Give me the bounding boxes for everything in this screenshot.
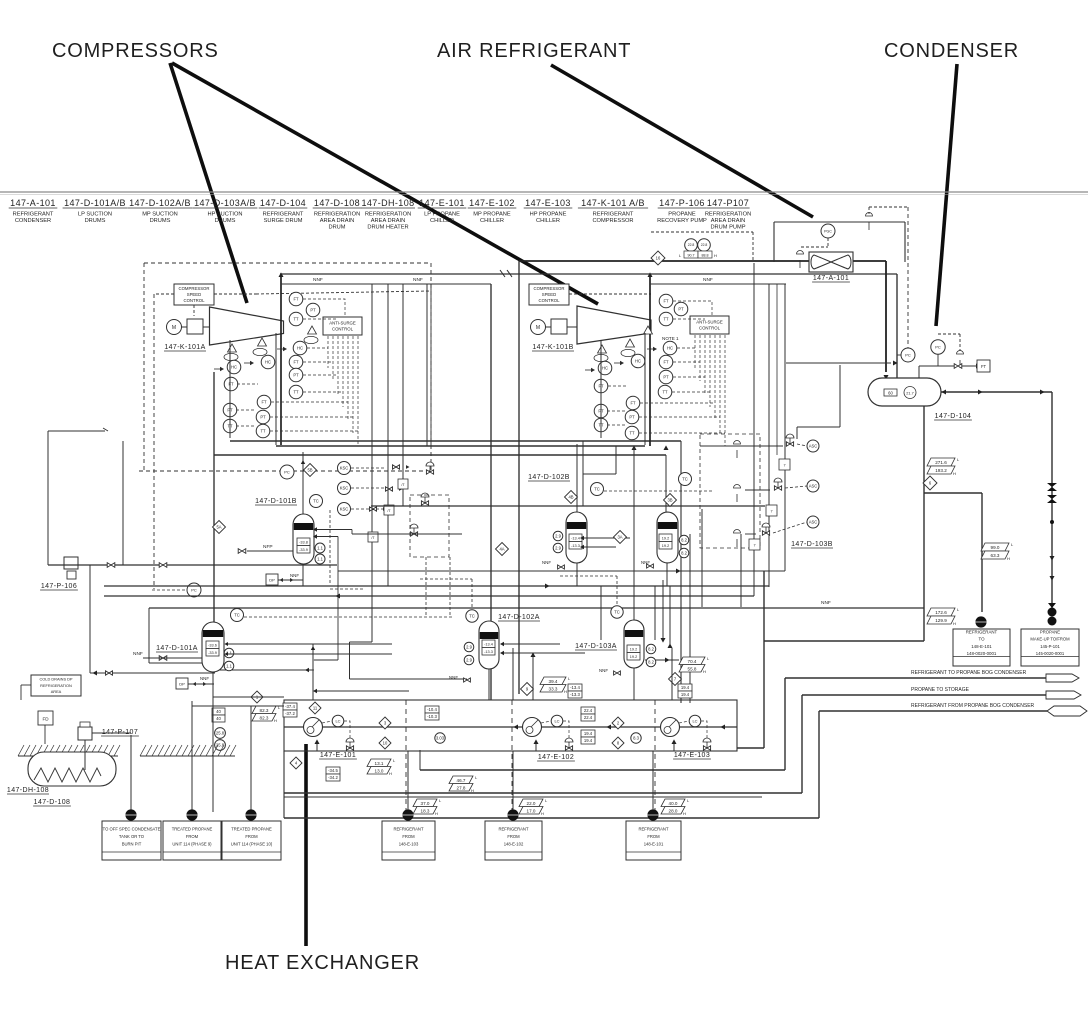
svg-text:DRUM: DRUM (328, 225, 345, 231)
wire 147-E-103 feed (673, 744, 675, 751)
arrow x634 up (631, 445, 636, 450)
dashed mid box (410, 495, 449, 557)
compressor 147-K-101A (210, 307, 284, 345)
wire v x616 (615, 446, 617, 474)
svg-text:MP PROPANE: MP PROPANE (473, 212, 511, 218)
arrow into drum (883, 375, 888, 380)
svg-text:-13.3: -13.3 (570, 692, 580, 697)
exchanger 147-E-103 (661, 718, 680, 737)
instrument FT B-r1 (659, 294, 673, 308)
offpage connector 2 (1046, 691, 1081, 699)
wire 102B in a (582, 537, 630, 539)
box A/T 3 (368, 532, 378, 542)
ball connector BURN PIT (125, 809, 136, 820)
wire y474 link (583, 473, 616, 475)
svg-text:TC: TC (234, 613, 240, 618)
dashed sep 1 (405, 700, 407, 812)
arrow discharge B (647, 272, 652, 277)
wire dashed PGC drop (827, 238, 829, 247)
dashed v426 (425, 557, 427, 617)
wire v x513a (512, 648, 514, 700)
box REFRIGERANT TO 148-E-101 (953, 629, 1010, 666)
box A/T 2 (384, 505, 394, 515)
equipment tag 147-E-103 (524, 198, 573, 224)
wire dashed psv h (869, 206, 908, 208)
instrument PT A-r1 (306, 303, 320, 317)
svg-text:TREATED PROPANE: TREATED PROPANE (172, 827, 213, 832)
arrow y571 (676, 568, 681, 573)
instrument TT B-r2 (658, 385, 672, 399)
pump 147-P-106 (64, 557, 78, 579)
wire stream3 drop (818, 711, 820, 818)
valve ksc2 (386, 487, 403, 491)
svg-text:PC: PC (284, 469, 290, 474)
box REFRIGERANT 148-E-103 (382, 821, 435, 860)
label 147-D-103A (575, 643, 617, 650)
relief valve PSV top (866, 213, 873, 231)
instrument 2.9 c (464, 642, 474, 652)
svg-text:TC: TC (614, 610, 620, 615)
svg-text:PC: PC (935, 344, 941, 349)
svg-text:NNF: NNF (290, 573, 299, 578)
svg-text:TT: TT (293, 317, 299, 322)
wire relief hdr x797 (796, 427, 798, 439)
svg-text:8.2: 8.2 (648, 660, 654, 665)
svg-text:LP SUCTION: LP SUCTION (78, 212, 112, 218)
instrument TC 101B (310, 495, 323, 508)
wire left v x90 (89, 565, 91, 673)
svg-text:ANTI-SURGE: ANTI-SURGE (696, 319, 723, 324)
svg-text:-33.8: -33.8 (299, 540, 308, 544)
svg-text:KSC: KSC (340, 466, 349, 471)
offpage connector 1 (1046, 674, 1079, 682)
wire p107 out (92, 732, 131, 734)
svg-text:REFRIGERANT TO PROPANE BOG: REFRIGERANT TO PROPANE BOG CONDENSER (911, 670, 1027, 676)
svg-text:22.8: 22.8 (701, 243, 708, 247)
svg-text:2.9: 2.9 (555, 546, 561, 551)
values 101A (206, 641, 219, 656)
instrument PT B-r1 (674, 302, 688, 316)
svg-text:REFRIGERANT: REFRIGERANT (593, 212, 634, 218)
svg-text:63.3: 63.3 (991, 553, 1000, 558)
wire nnf B (650, 283, 786, 285)
instrument PT B-l (594, 404, 608, 418)
svg-text:DRUMS: DRUMS (215, 218, 236, 224)
valve dp1 (192, 682, 206, 686)
cloud B3 (594, 354, 608, 361)
wire x338 jog (337, 537, 339, 661)
wire bot lateral y748 (737, 747, 764, 749)
wire dashed csc a (193, 305, 195, 316)
label 147-D-103B (791, 541, 833, 548)
dashed tc101b v (329, 510, 331, 583)
equipment tag 147-A-101 (9, 198, 58, 224)
label 147-P-106 (40, 583, 78, 590)
svg-text:SPEED: SPEED (187, 292, 202, 297)
tag 70.4/55.8 (679, 656, 710, 674)
instrument KSC 1 (338, 462, 351, 475)
svg-text:COMPRESSOR: COMPRESSOR (592, 218, 633, 224)
svg-text:REFRIGERANT: REFRIGERANT (393, 827, 423, 832)
svg-text:147-K-101B: 147-K-101B (532, 344, 573, 351)
tag 39.4/33.3 (540, 676, 571, 694)
vessel 147-D-108 (28, 752, 116, 786)
wire pc stem (918, 366, 920, 378)
svg-text:H: H (541, 811, 544, 816)
wire mid line y506 (371, 505, 765, 507)
wire left v x123 (122, 441, 124, 565)
valve ksc1 (393, 465, 410, 469)
values 19.4r (678, 684, 692, 698)
arrow 102A b (500, 651, 504, 655)
svg-text:TO OFF SPEC CONDENSATE: TO OFF SPEC CONDENSATE (103, 827, 161, 832)
svg-text:AREA DRAIN: AREA DRAIN (711, 218, 745, 224)
wire x3495 drop (349, 642, 351, 679)
wire dashed pc2 b (959, 334, 961, 354)
arrow drum inlet (941, 389, 946, 394)
box ANTI-SURGE CONTROL B (690, 316, 729, 334)
valve stack on x1052 (1047, 483, 1057, 503)
label 147-E-102 (537, 754, 575, 761)
arrow 101B b (313, 534, 317, 538)
svg-text:LC: LC (692, 718, 697, 723)
wire x313 drop (312, 644, 314, 700)
svg-text:ASC: ASC (809, 484, 818, 489)
svg-text:HP PROPANE: HP PROPANE (530, 212, 567, 218)
valve ksc3 (370, 507, 387, 511)
wire y691 seg (314, 690, 409, 692)
svg-text:NNF: NNF (641, 560, 650, 565)
arrow to FT (976, 363, 981, 368)
svg-text:-13.4: -13.4 (570, 685, 580, 690)
svg-text:H: H (953, 471, 956, 476)
svg-text:PROPANE: PROPANE (668, 212, 696, 218)
svg-text:5A: 5A (216, 525, 221, 530)
cv cluster 2 (774, 478, 782, 490)
wire bypass top y222 (774, 221, 905, 223)
svg-text:CHILLER: CHILLER (430, 218, 454, 224)
svg-text:H: H (274, 718, 277, 723)
dashed pc leftmid (152, 589, 187, 591)
wire mid line y534 (352, 533, 462, 535)
svg-text:DRUMS: DRUMS (85, 218, 106, 224)
wire bot lateral y770 (420, 769, 785, 771)
cv mid1 (426, 462, 434, 474)
triangle A1 (308, 326, 317, 334)
label 147-E-101 (319, 752, 357, 759)
valve 102B (558, 565, 565, 569)
wire dashed csc b (214, 293, 256, 295)
dashed enclosure A bottom (139, 470, 431, 472)
svg-text:CONDENSER: CONDENSER (884, 40, 1019, 62)
wire v x663 (662, 580, 664, 640)
tag -37.4/-37.2 (283, 703, 297, 717)
svg-text:21.7: 21.7 (906, 391, 913, 395)
instrument PGC (821, 224, 835, 238)
svg-text:19.2: 19.2 (662, 536, 669, 540)
ball connector 148-E-102 (507, 809, 518, 820)
arrow flow 725 (720, 724, 725, 729)
svg-text:NNF: NNF (599, 668, 608, 673)
svg-text:1.1: 1.1 (226, 664, 232, 669)
instrument KSC 2 (338, 482, 351, 495)
tag 19.4/19.4 mid (581, 730, 595, 744)
svg-text:-10.3: -10.3 (427, 714, 437, 719)
ball connector UNIT 114 (PHASE 10) (245, 809, 256, 820)
svg-text:147-D-104: 147-D-104 (260, 198, 306, 208)
instrument FT A-r2 (289, 355, 303, 369)
wire y641 lateral (764, 640, 924, 642)
svg-text:17.0: 17.0 (527, 808, 536, 813)
svg-text:CONTROL: CONTROL (332, 327, 354, 332)
svg-text:FD: FD (42, 717, 49, 722)
wire v x213 low (212, 700, 214, 812)
instrument HC B-l (598, 361, 612, 375)
heater zigzag (34, 768, 101, 782)
wire bot lateral y793 (284, 792, 802, 794)
tag 40/40 (212, 708, 225, 722)
instrument TT A-r1 (289, 312, 303, 326)
valve 103B (647, 564, 654, 568)
wire shaft A2 (203, 326, 209, 328)
wire x149 drop (148, 608, 150, 663)
svg-text:DP: DP (179, 682, 185, 687)
instrument 2.9 b (553, 543, 563, 553)
leader COMPRESSORS to K-101A (170, 63, 247, 303)
instrument 8.2 d (646, 657, 656, 667)
svg-text:PC: PC (191, 587, 197, 592)
pump 147-P-107 (78, 722, 92, 770)
wire v x670a (669, 586, 671, 646)
valve y673 (106, 671, 113, 675)
tag 22.8 pair (679, 239, 717, 258)
svg-text:UNIT 114 (PHASE 10): UNIT 114 (PHASE 10) (231, 841, 273, 846)
svg-text:TT: TT (260, 429, 266, 434)
instrument PT B-m (625, 410, 639, 424)
svg-text:PROPANE TO STORAGE: PROPANE TO STORAGE (911, 687, 970, 693)
wire left top y431 (48, 430, 105, 432)
cv under 147-E-101 (346, 738, 354, 750)
wire train main flow (284, 726, 737, 728)
wire x372 ext (371, 540, 373, 642)
exchanger 147-E-102 (523, 718, 542, 737)
svg-text:M: M (536, 325, 540, 331)
svg-text:19.2: 19.2 (630, 647, 637, 651)
valve hc A3 (277, 347, 287, 351)
svg-text:SURGE DRUM: SURGE DRUM (264, 218, 303, 224)
dashed web A (236, 299, 358, 446)
instrument ASC 2 (807, 480, 819, 492)
wire 101B in a (315, 529, 352, 531)
wire dashed csc left (156, 293, 174, 295)
instrument TT A-r2 (289, 385, 303, 399)
ground hatch (18, 745, 236, 756)
wire line y571 (338, 570, 785, 572)
svg-text:2.9: 2.9 (555, 534, 561, 539)
wire col line B2 (644, 333, 646, 445)
svg-text:172.6: 172.6 (935, 610, 947, 615)
diamond 10 (379, 737, 391, 749)
svg-text:147-D-102B: 147-D-102B (528, 474, 570, 481)
svg-text:11: 11 (313, 706, 318, 711)
instrument 25.8 b (215, 740, 226, 751)
svg-text:NNF: NNF (313, 277, 323, 283)
wire pc1 tie (897, 354, 901, 356)
wire v x513 low (512, 751, 514, 810)
instrument 8.3 (631, 733, 641, 743)
svg-text:HC: HC (231, 365, 237, 370)
box TREATED PROPANE UNIT 114 (PHASE 9) (163, 821, 221, 860)
wire drop x982 (981, 493, 983, 612)
wire shaft B2 (567, 326, 577, 328)
svg-text:PGC: PGC (824, 229, 832, 233)
dashed asc 3 (773, 522, 807, 533)
svg-text:REFRIGERANT: REFRIGERANT (638, 827, 668, 832)
instrument TC 102B (591, 483, 604, 496)
wire dashed PGC lateral (801, 246, 828, 248)
offpage connector 3 (1047, 706, 1087, 716)
svg-text:147-DH-108: 147-DH-108 (361, 198, 414, 208)
svg-text:25.8: 25.8 (216, 731, 225, 736)
arrow 101A b (224, 652, 228, 656)
box 7a (779, 459, 790, 470)
box REFRIGERANT 148-E-101 (626, 821, 681, 860)
arrow y596 (335, 593, 340, 598)
valve p106a (107, 563, 115, 568)
dashed enclosure A top (144, 262, 430, 264)
wire cold drains v (20, 685, 22, 700)
svg-text:-34.5: -34.5 (328, 768, 338, 773)
equipment tag 147-D-102A/B (128, 198, 193, 224)
svg-text:AREA DRAIN: AREA DRAIN (371, 218, 405, 224)
svg-text:88.8: 88.8 (702, 253, 709, 257)
wire crossbar y455 (214, 454, 666, 456)
svg-text:40: 40 (216, 716, 221, 721)
wire y642 jog (350, 641, 373, 643)
wire y697 line (213, 696, 284, 698)
wire drum feed vertical x886 (885, 261, 887, 372)
relief 1 cluster (734, 441, 741, 459)
instrument PT A-m (256, 410, 270, 424)
values -13.4b (568, 684, 582, 698)
vessel 147-D-104 (868, 378, 941, 406)
svg-text:HC: HC (635, 359, 641, 364)
wire col line A1 (229, 340, 231, 438)
svg-text:FT: FT (663, 299, 669, 304)
wire stream3 (819, 710, 1047, 712)
wire 101A in b (226, 653, 392, 655)
svg-text:-33.6: -33.6 (208, 643, 217, 647)
tag 40.0/28.0 (661, 798, 690, 816)
exchanger 147-E-101 (304, 718, 323, 737)
arrow up 147-E-101 (314, 739, 319, 744)
instrument PC left (901, 348, 915, 362)
wire discharge A x281 (280, 277, 282, 445)
svg-text:TC: TC (313, 499, 319, 504)
svg-text:147-K-101 A/B: 147-K-101 A/B (581, 198, 645, 208)
svg-text:FROM: FROM (245, 834, 258, 839)
wire left v x214 (213, 372, 215, 673)
svg-text:LC: LC (554, 718, 559, 723)
instrument LC 147-E-101 (332, 715, 344, 727)
cv mid2 (421, 493, 429, 505)
equipment tag 147-D-103A/B (193, 198, 258, 224)
box COLD DRAINS (31, 675, 81, 696)
instrument TC 101A (231, 609, 244, 622)
dashed tc102a v (471, 579, 473, 609)
svg-text:70.4: 70.4 (688, 659, 697, 664)
tag 82.3/82.3 (252, 705, 281, 723)
svg-text:TO: TO (978, 637, 985, 642)
diamond 1 (251, 691, 263, 703)
wire 102A in a (502, 643, 560, 645)
svg-text:5B: 5B (307, 468, 312, 473)
instrument HC B-r2 (663, 341, 677, 355)
label 147-P-107 (101, 729, 139, 736)
relief small pc (957, 351, 964, 369)
dashed web B (607, 301, 725, 446)
svg-text:HC: HC (602, 366, 608, 371)
svg-text:148-0020-0001: 148-0020-0001 (967, 651, 997, 656)
dashed enclosure A left2 (153, 294, 155, 589)
instrument ASC 1 (807, 440, 819, 452)
svg-text:22.4: 22.4 (584, 715, 593, 720)
equipment tag 147-K-101 A/B (578, 198, 648, 224)
instrument TC 103B (679, 473, 692, 486)
tag 46.7/27.8 (449, 775, 478, 793)
svg-text:37.0: 37.0 (421, 801, 430, 806)
svg-text:27.8: 27.8 (457, 785, 466, 790)
svg-text:NOTE 1: NOTE 1 (662, 336, 679, 341)
wire B v x754 (753, 263, 755, 596)
svg-text:M: M (172, 325, 176, 331)
svg-text:H: H (1007, 556, 1010, 561)
valve p106b (159, 563, 167, 568)
dashed sep 2 (511, 700, 513, 812)
svg-text:55.8: 55.8 (688, 666, 697, 671)
svg-text:COLD DRAINS DP: COLD DRAINS DP (39, 677, 72, 682)
cloud A2 (253, 348, 267, 355)
equipment tag 147-P107 (705, 198, 751, 231)
vessel 147-D-101A (202, 622, 224, 672)
dashed tc101a (244, 616, 452, 618)
wire line y586 (104, 585, 769, 587)
svg-text:147-E-101: 147-E-101 (419, 198, 465, 208)
tag 13.1/13.0 (367, 758, 396, 776)
svg-text:90.7: 90.7 (688, 253, 695, 257)
svg-text:147-D-102A/B: 147-D-102A/B (129, 198, 191, 208)
wire shaft A1 (181, 326, 187, 328)
wire x764 drop (763, 571, 765, 748)
svg-text:3.03: 3.03 (436, 736, 445, 741)
svg-text:147-A-101: 147-A-101 (10, 198, 56, 208)
wire lateral y363 (786, 362, 891, 364)
diamond 3 (379, 717, 391, 729)
svg-text:PT: PT (678, 307, 684, 312)
svg-text:H: H (703, 669, 706, 674)
instrument PC left-mid (187, 583, 201, 597)
instrument 8.2 a (679, 535, 689, 545)
svg-text:147-E-101: 147-E-101 (320, 752, 356, 759)
vessel 147-D-103B (657, 512, 678, 563)
box FD (38, 711, 53, 725)
instrument 1.1 c (224, 648, 234, 658)
wire line y596 (104, 595, 754, 597)
svg-text:271.6: 271.6 (935, 460, 947, 465)
wire v x251 (250, 706, 252, 812)
leader AIR REFRIGERANT (551, 65, 813, 217)
instrument PC right (931, 340, 945, 354)
